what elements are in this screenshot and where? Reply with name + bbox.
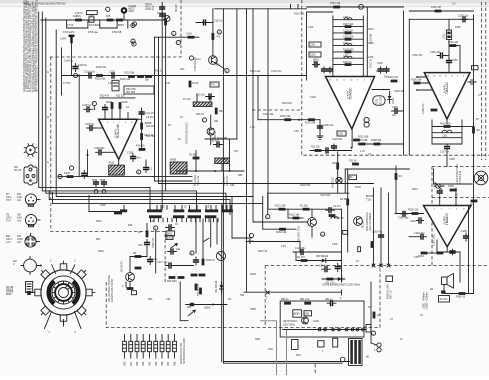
svg-text:BD80: BD80 <box>294 313 301 316</box>
svg-text:R105: R105 <box>64 172 70 175</box>
svg-text:R107: R107 <box>368 28 374 31</box>
wire <box>130 256 147 258</box>
svg-text:R110 1k6: R110 1k6 <box>388 76 399 79</box>
svg-text:R122 1k: R122 1k <box>370 58 373 68</box>
wire bus 16 <box>373 188 375 266</box>
svg-text:R110 1k: R110 1k <box>343 61 353 64</box>
resistor R108 <box>106 101 113 109</box>
node S1 <box>94 190 98 194</box>
wire <box>58 176 192 178</box>
svg-text:FT16: FT16 <box>68 24 74 27</box>
connector pin pair 1 <box>318 328 326 331</box>
svg-text:C80: C80 <box>305 312 310 315</box>
connector pin pair 2 <box>332 328 341 331</box>
resistor R101 <box>106 15 113 21</box>
svg-text:ANSCHLUSS 4 OHM: ANSCHLUSS 4 OHM <box>111 279 114 302</box>
svg-text:C3 47u: C3 47u <box>146 116 154 119</box>
svg-text:R204: R204 <box>98 250 104 253</box>
svg-text:R125: R125 <box>193 82 199 85</box>
node t3 <box>131 39 135 43</box>
svg-text:C302 47u: C302 47u <box>152 237 155 248</box>
svg-text:R137 1k: R137 1k <box>258 250 268 253</box>
dashed border (FM section) <box>302 0 489 155</box>
wire switch drop tick <box>171 218 173 222</box>
capacitor C150 <box>458 15 469 22</box>
black terminal <box>441 291 446 294</box>
capacitor C156b <box>468 80 476 85</box>
output jack circle <box>340 357 345 362</box>
wire bus 6 <box>159 37 374 183</box>
svg-text:R102 10k: R102 10k <box>280 115 291 118</box>
wire <box>229 139 231 171</box>
svg-text:L104: L104 <box>308 26 314 29</box>
svg-text:0.6V: 0.6V <box>294 130 299 133</box>
capacitor C106 <box>103 105 108 113</box>
svg-text:10.7: 10.7 <box>376 70 381 73</box>
wire <box>146 224 148 231</box>
svg-text:A 27: A 27 <box>6 241 11 244</box>
power supply box <box>280 301 364 337</box>
dashed border (input section) <box>51 57 165 282</box>
wire switch feed tick <box>174 206 176 210</box>
wire bus 19 <box>236 9 238 139</box>
svg-text:R115: R115 <box>109 162 115 165</box>
svg-text:R318 1k: R318 1k <box>206 259 216 262</box>
node y <box>172 31 176 35</box>
resistor R112 <box>140 122 152 129</box>
junction tick 2 <box>341 290 343 295</box>
wire pin stub <box>104 112 106 119</box>
svg-text:R132 12k: R132 12k <box>276 231 287 234</box>
wire <box>89 211 122 213</box>
svg-text:C150 10u: C150 10u <box>458 15 469 18</box>
svg-text:LS002 - 620mm: LS002 - 620mm <box>425 292 428 309</box>
wire switch drop tick <box>205 218 207 222</box>
leader line pin 6 <box>75 312 82 329</box>
wire <box>210 135 212 144</box>
wire bus 15 <box>337 152 339 193</box>
resistor R102 10k <box>280 115 291 121</box>
svg-text:C30: C30 <box>150 220 155 223</box>
wire <box>437 251 460 253</box>
svg-text:R109: R109 <box>122 101 128 104</box>
switch contact arrow <box>171 244 178 248</box>
wire <box>146 247 148 257</box>
wire <box>105 151 116 153</box>
dashed border (output section) <box>106 266 380 328</box>
svg-text:BASS: BASS <box>167 237 174 240</box>
svg-text:C162: C162 <box>410 220 416 223</box>
svg-text:SI51: SI51 <box>296 354 302 357</box>
dashed border (output section bottom) <box>265 265 489 267</box>
svg-text:IC AMPL: IC AMPL <box>443 84 446 93</box>
capacitor C91 <box>160 12 165 17</box>
wire <box>71 43 73 75</box>
svg-text:R138: R138 <box>250 273 256 276</box>
wire stub <box>297 5 299 9</box>
resistor R160 <box>408 209 419 215</box>
wire switch drop tick <box>195 218 197 222</box>
lamp labels <box>129 5 137 13</box>
wire bus 8 <box>165 14 167 191</box>
svg-text:25u+: 25u+ <box>136 157 142 160</box>
svg-text:L106: L106 <box>343 42 349 45</box>
wire <box>433 169 435 184</box>
capacitor C117 <box>313 62 320 67</box>
svg-text:L107: L107 <box>343 55 349 58</box>
thick T-stub <box>69 36 75 43</box>
svg-text:BC107B T101: BC107B T101 <box>298 225 301 241</box>
svg-text:B020: B020 <box>6 293 12 296</box>
svg-text:220V 50Hz: 220V 50Hz <box>283 323 296 326</box>
coil L107 <box>331 217 338 219</box>
resistor C107 <box>345 32 352 35</box>
resistor R53 (vertical, bottom row) <box>141 335 145 367</box>
transistor T5 BC149 <box>121 261 135 282</box>
resistor R54 (vertical, bottom row) <box>148 335 152 367</box>
resistor R165 <box>456 292 466 299</box>
wire <box>155 36 200 38</box>
resistor R147 <box>199 274 206 277</box>
wire <box>210 115 212 128</box>
capacitor C121 <box>210 139 222 147</box>
capacitor C111 <box>139 109 155 117</box>
resistor R159 <box>448 185 456 191</box>
svg-text:R103 15k: R103 15k <box>305 122 316 125</box>
svg-text:C50 13n: C50 13n <box>319 264 329 267</box>
wire <box>347 205 349 252</box>
node H <box>69 166 73 170</box>
junction <box>78 75 80 77</box>
note (rotated) <box>366 212 372 231</box>
wire <box>395 166 397 214</box>
capacitor C109 <box>318 123 334 131</box>
svg-text:L105: L105 <box>343 16 349 19</box>
section box (preamp) <box>307 12 333 80</box>
svg-text:R50: R50 <box>124 361 127 366</box>
wire <box>205 138 237 140</box>
DIN note (rotated) <box>108 274 114 302</box>
resistor R110 <box>345 63 352 66</box>
node Q <box>371 331 375 335</box>
svg-text:R163: R163 <box>418 255 424 258</box>
svg-text:R102 0k1: R102 0k1 <box>96 66 107 69</box>
DIN socket AUX <box>21 257 42 275</box>
wire switch drop tick <box>181 218 183 222</box>
svg-text:R52: R52 <box>136 361 139 366</box>
resistor R103 <box>95 74 106 81</box>
svg-text:R165 10: R165 10 <box>456 296 466 299</box>
node D <box>217 30 221 34</box>
capacitor C118 <box>378 67 383 73</box>
wire stub <box>61 48 63 95</box>
relay box <box>75 11 97 15</box>
resistor R157b <box>411 78 422 84</box>
resistor R146 <box>191 274 198 277</box>
dashed border (tuner section) <box>48 0 181 57</box>
svg-text:C11: C11 <box>166 82 171 85</box>
node F <box>92 102 96 106</box>
svg-text:BC107: BC107 <box>380 97 383 105</box>
transistor T102 <box>354 217 365 228</box>
transistor T2 BC107 <box>207 128 217 138</box>
svg-text:R110 180: R110 180 <box>358 135 369 138</box>
capacitor C90 <box>160 5 165 10</box>
svg-text:C124: C124 <box>248 240 254 243</box>
svg-text:1N: 1N <box>228 298 231 301</box>
resistor R113 <box>140 133 154 140</box>
capacitor C160 <box>400 211 407 216</box>
ground <box>317 136 323 139</box>
test box TP3 <box>309 52 321 57</box>
wire <box>448 40 450 59</box>
svg-text:TR50: TR50 <box>250 308 257 311</box>
wire <box>195 219 197 253</box>
switch contact arrow 2 <box>203 238 209 242</box>
wire switch drop tick <box>167 218 169 222</box>
svg-text:C159: C159 <box>449 158 455 161</box>
svg-text:0.5V: 0.5V <box>414 256 419 259</box>
wire <box>100 97 135 99</box>
resistor R145 <box>178 276 185 279</box>
wire switch drop tick <box>217 218 219 222</box>
wire speaker feed <box>434 183 473 185</box>
DIN socket PH2 (tape) <box>25 214 40 226</box>
wire <box>155 230 157 273</box>
resistor R141 <box>133 252 141 258</box>
svg-text:1.2V: 1.2V <box>360 150 365 153</box>
terminal circles 2/6 <box>374 343 381 352</box>
leader line pin 3 <box>71 265 75 274</box>
wire bus 9 <box>78 76 80 177</box>
svg-text:R14 560: R14 560 <box>146 135 156 138</box>
svg-text:10n: 10n <box>392 114 397 117</box>
svg-text:C52: C52 <box>166 298 171 301</box>
wire input bus <box>258 119 320 121</box>
resistor R122 <box>124 72 135 78</box>
svg-text:T150: T150 <box>366 198 372 201</box>
resistor R132 <box>276 228 287 234</box>
wire switch drop tick <box>186 218 188 222</box>
node B <box>132 42 136 46</box>
connector block (black) <box>114 211 122 214</box>
resistor R100 <box>73 15 82 21</box>
label box TO <box>472 66 479 70</box>
resistor R51 (vertical, bottom row) <box>129 335 133 367</box>
capacitor C110 <box>200 20 223 25</box>
wire <box>209 97 211 103</box>
wire right bus <box>473 15 475 294</box>
svg-text:C102 6.8u: C102 6.8u <box>84 70 96 73</box>
wire mains feed <box>244 291 342 293</box>
capacitor C104 <box>186 32 194 38</box>
wire ladder rung <box>333 32 363 34</box>
wire <box>141 108 143 149</box>
fuse box SI2 <box>318 341 324 347</box>
resistor R155 <box>472 127 481 134</box>
capacitor C163b <box>379 233 384 239</box>
wire switch feed tick <box>160 206 162 210</box>
svg-text:C149 5u: C149 5u <box>64 60 74 63</box>
op-amp U4 TBA800 <box>424 206 472 247</box>
wire <box>293 251 342 253</box>
wire switch feed tick <box>181 206 183 210</box>
wire stub <box>290 5 292 9</box>
node C <box>176 41 180 45</box>
feedback ladder under TBA120 <box>432 120 462 144</box>
wire <box>428 252 437 254</box>
svg-text:LIN: LIN <box>17 199 21 202</box>
wire bus 7 <box>161 3 163 210</box>
wire <box>88 195 90 211</box>
svg-text:C110 150: C110 150 <box>343 36 354 39</box>
op-amp U2 TCA530 <box>326 77 375 130</box>
wire bus 17 <box>380 188 382 266</box>
resistor R102a <box>116 19 123 22</box>
capacitor C112 <box>324 148 331 153</box>
resistor R124 <box>145 75 152 82</box>
svg-text:C157 5n: C157 5n <box>440 151 450 154</box>
svg-text:R160 100: R160 100 <box>408 209 419 212</box>
svg-text:S50/S: S50/S <box>204 307 211 310</box>
wire bus 11 <box>246 9 248 293</box>
speaker label (rotated) <box>456 164 462 184</box>
wire top bus <box>215 8 307 10</box>
capacitor C113b <box>332 144 337 150</box>
svg-text:SI 0.8A: SI 0.8A <box>440 298 448 301</box>
label volume <box>223 176 229 186</box>
svg-text:R201: R201 <box>96 220 102 223</box>
resistor R103b <box>305 118 316 124</box>
wire bus 18 <box>388 193 390 266</box>
wire <box>347 169 349 199</box>
svg-text:R10 47k: R10 47k <box>100 95 110 98</box>
wire switch feed tick <box>196 206 198 210</box>
wire input TBA800 <box>395 213 424 215</box>
svg-text:1.5V: 1.5V <box>108 82 113 85</box>
svg-text:R117 1k: R117 1k <box>335 217 345 220</box>
svg-text:REGLER 500mV: REGLER 500mV <box>369 213 372 231</box>
svg-text:R161: R161 <box>412 188 418 191</box>
wire <box>322 278 345 280</box>
wire <box>202 219 204 259</box>
resistor R151 <box>448 41 458 47</box>
svg-text:C103: C103 <box>109 70 115 73</box>
dashed mains lead <box>314 364 316 375</box>
svg-text:C121 50u: C121 50u <box>320 194 331 197</box>
fuse box SI3 <box>333 338 338 347</box>
measurement note (rotated) <box>180 338 186 364</box>
svg-text:DIN2: DIN2 <box>167 232 173 235</box>
wire switch feed tick <box>123 206 125 210</box>
capacitor C161 <box>437 189 442 194</box>
capacitor C107 <box>85 123 95 130</box>
DIN socket MIC <box>25 234 40 248</box>
svg-text:C118: C118 <box>377 62 383 65</box>
wire switch drop tick <box>150 218 152 222</box>
speaker note (rotated) <box>423 292 429 309</box>
connector pin pair 3 <box>345 328 354 331</box>
svg-text:R103 56k: R103 56k <box>95 78 106 81</box>
wire ladder rung <box>333 19 363 21</box>
resistor R164 <box>437 252 444 255</box>
resistor R152 <box>431 6 441 12</box>
svg-text:R158 5k6: R158 5k6 <box>371 139 382 142</box>
svg-text:C151: C151 <box>443 33 446 39</box>
wire box bottom <box>268 192 349 194</box>
input stubs TBA120 <box>417 77 433 90</box>
part labels <box>145 3 155 11</box>
wire <box>443 285 445 294</box>
capacitor C166 <box>461 230 468 241</box>
svg-text:C317 75p: C317 75p <box>157 261 168 264</box>
wire switch feed tick <box>149 206 151 210</box>
resistor R128 <box>332 162 339 169</box>
svg-text:TA: TA <box>178 138 181 141</box>
svg-text:TB 5: TB 5 <box>6 199 12 202</box>
svg-text:R159: R159 <box>448 185 454 188</box>
node H2 <box>58 175 62 179</box>
svg-text:L105: L105 <box>338 133 344 136</box>
wire switch drop tick <box>162 218 164 222</box>
capacitor C152 <box>430 51 446 58</box>
svg-text:2.1V: 2.1V <box>250 126 255 129</box>
svg-text:B60/7: B60/7 <box>118 24 125 27</box>
wire <box>310 150 352 152</box>
resistor R156 <box>357 139 368 145</box>
svg-text:R1 470: R1 470 <box>297 256 305 259</box>
power transistor outline (TO-66 package) <box>24 165 37 185</box>
svg-text:R102 10k: R102 10k <box>263 113 274 116</box>
note (rotated) <box>387 284 393 299</box>
svg-text:C152 15n: C152 15n <box>430 51 441 54</box>
svg-text:D103: D103 <box>392 98 395 104</box>
wire bus 12 <box>253 9 308 222</box>
resistor R122b <box>289 213 300 219</box>
wire <box>180 282 188 321</box>
label box <box>132 291 137 295</box>
svg-text:4700 NB: 4700 NB <box>112 31 122 34</box>
capacitor C108 <box>94 147 105 155</box>
wire <box>446 247 448 252</box>
svg-text:C: C <box>122 285 124 288</box>
svg-text:REGLER: REGLER <box>226 176 229 186</box>
svg-text:BC107: BC107 <box>362 220 365 228</box>
resistor R158 <box>373 312 381 319</box>
svg-text:SxBNN: SxBNN <box>73 15 81 18</box>
wire <box>371 343 377 345</box>
svg-text:67B: 67B <box>106 15 111 18</box>
transistor T5 body bottom <box>126 282 130 288</box>
wire <box>210 219 212 247</box>
svg-text:C149 5u: C149 5u <box>78 64 88 67</box>
resistor R149 <box>199 288 202 295</box>
wire <box>372 89 390 91</box>
wire <box>196 22 213 24</box>
switch bank contact bars row 1 <box>120 209 233 212</box>
power resistor R120 (wirewound) <box>193 102 212 107</box>
wire bus 3 <box>46 18 226 209</box>
svg-text:P1 LIN: P1 LIN <box>183 98 191 101</box>
resistor R52 (vertical, bottom row) <box>135 335 139 367</box>
resistor R133 <box>329 214 345 220</box>
capacitor C151 (electrolytic) <box>443 30 452 40</box>
resistor R151 <box>330 2 341 8</box>
resistor R154 <box>431 109 438 112</box>
wire switch feed tick <box>230 206 232 210</box>
transistor box T80 <box>293 310 302 317</box>
op-amp U1 TDA1046 <box>99 119 138 159</box>
